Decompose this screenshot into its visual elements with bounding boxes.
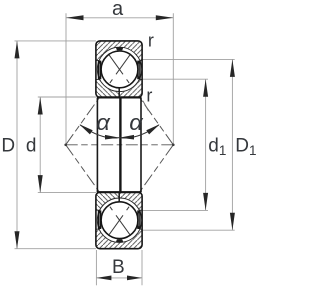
ring hatch body: [96, 192, 142, 249]
arrow D1 bottom: [230, 213, 235, 231]
cage bar right: [137, 210, 141, 229]
ext line a left: [65, 13, 67, 145]
contact line lower-left dashed part: [66, 145, 108, 204]
contact line upper-right tip stub: [131, 50, 134, 54]
alpha arc left outer arrowhead: [79, 124, 92, 134]
contact line lower-right tip stub: [131, 236, 134, 240]
svg-text:α: α: [129, 110, 144, 135]
ext line B right: [141, 250, 143, 285]
arrow a right: [156, 15, 174, 20]
svg-text:d: d: [26, 136, 37, 157]
svg-text:r: r: [148, 30, 154, 50]
horizontal centerline: [66, 144, 120, 146]
arrow D bottom: [15, 231, 20, 249]
contact line lower-left tip stub: [105, 236, 108, 240]
arrow d bottom: [38, 175, 43, 193]
cage bar left: [98, 210, 102, 229]
alpha arc left: [80, 125, 119, 138]
alpha arc right inner arrowhead: [120, 135, 134, 140]
inner ring split line: [118, 192, 120, 202]
contact line lower-right dashed part: [131, 145, 173, 204]
arrow B left: [96, 276, 111, 281]
bore face line left: [96, 97, 98, 192]
ring hatch body: [96, 41, 142, 98]
top block bore line (thick): [97, 96, 141, 98]
cage zone white left: [96, 210, 104, 229]
ext line D bottom: [15, 248, 97, 250]
arrow d1 top: [203, 79, 208, 97]
ext line d bottom: [38, 192, 96, 194]
ext line d1 bottom: [142, 209, 208, 211]
arrow a left: [66, 15, 84, 20]
cage bar left: [98, 61, 102, 80]
alpha arc left inner arrowhead: [105, 135, 119, 140]
svg-text:B: B: [112, 257, 125, 278]
top ball X: [109, 55, 123, 75]
svg-text:D: D: [1, 136, 15, 157]
arrow D top: [15, 41, 20, 59]
filling-slot notch: [116, 239, 124, 242]
ext line d1 top: [142, 78, 208, 80]
dim line B: [96, 277, 142, 279]
inner ring left half (backslash hatch): [96, 79, 119, 97]
dim line d: [39, 97, 41, 193]
ext line D1 top: [142, 58, 235, 60]
inner-ring split line (thick center): [119, 97, 121, 192]
ext line d top: [38, 96, 96, 98]
top block outline: [96, 41, 142, 98]
dim line a: [66, 17, 173, 19]
cage zone white left: [96, 60, 104, 79]
bore face line right: [140, 97, 142, 192]
dim line D1: [231, 59, 233, 230]
bottom ball X: [109, 215, 123, 235]
ball: [101, 202, 138, 239]
bottom block outline: [96, 192, 142, 249]
arrow D1 top: [230, 59, 235, 77]
ext line D top: [15, 40, 97, 42]
ext line B left: [95, 250, 97, 285]
bottom block bore line (thick): [97, 191, 141, 193]
cage zone white right: [134, 60, 142, 79]
vertex dot left: [64, 144, 67, 147]
dim line d1: [205, 79, 207, 210]
arrow d top: [38, 97, 43, 115]
ext line D1 bottom: [142, 229, 235, 231]
cage bar right: [137, 61, 141, 80]
cage zone white right: [134, 210, 142, 229]
inner ring left half (backslash hatch): [96, 192, 119, 210]
inner ring split line: [118, 88, 120, 98]
filling-slot notch: [116, 47, 124, 50]
ext line a right: [172, 13, 174, 145]
dim line D: [16, 41, 18, 249]
svg-text:α: α: [96, 110, 111, 135]
vertex dot right: [172, 144, 175, 147]
svg-text:a: a: [112, 0, 124, 20]
arrow B right: [127, 276, 142, 281]
alpha arc right: [120, 125, 159, 138]
cage zone edge lines: [96, 60, 142, 79]
arrow d1 bottom: [203, 193, 208, 211]
groove circle: [97, 47, 141, 91]
contact line upper-right dashed part: [131, 86, 173, 145]
contact line upper-left tip stub: [105, 50, 108, 54]
groove circle: [97, 198, 141, 242]
contact line upper-left dashed part: [66, 86, 108, 145]
alpha arc right outer arrowhead: [146, 124, 159, 134]
cage zone edge lines: [96, 210, 142, 229]
ball: [101, 51, 138, 88]
svg-text:r: r: [146, 85, 152, 105]
